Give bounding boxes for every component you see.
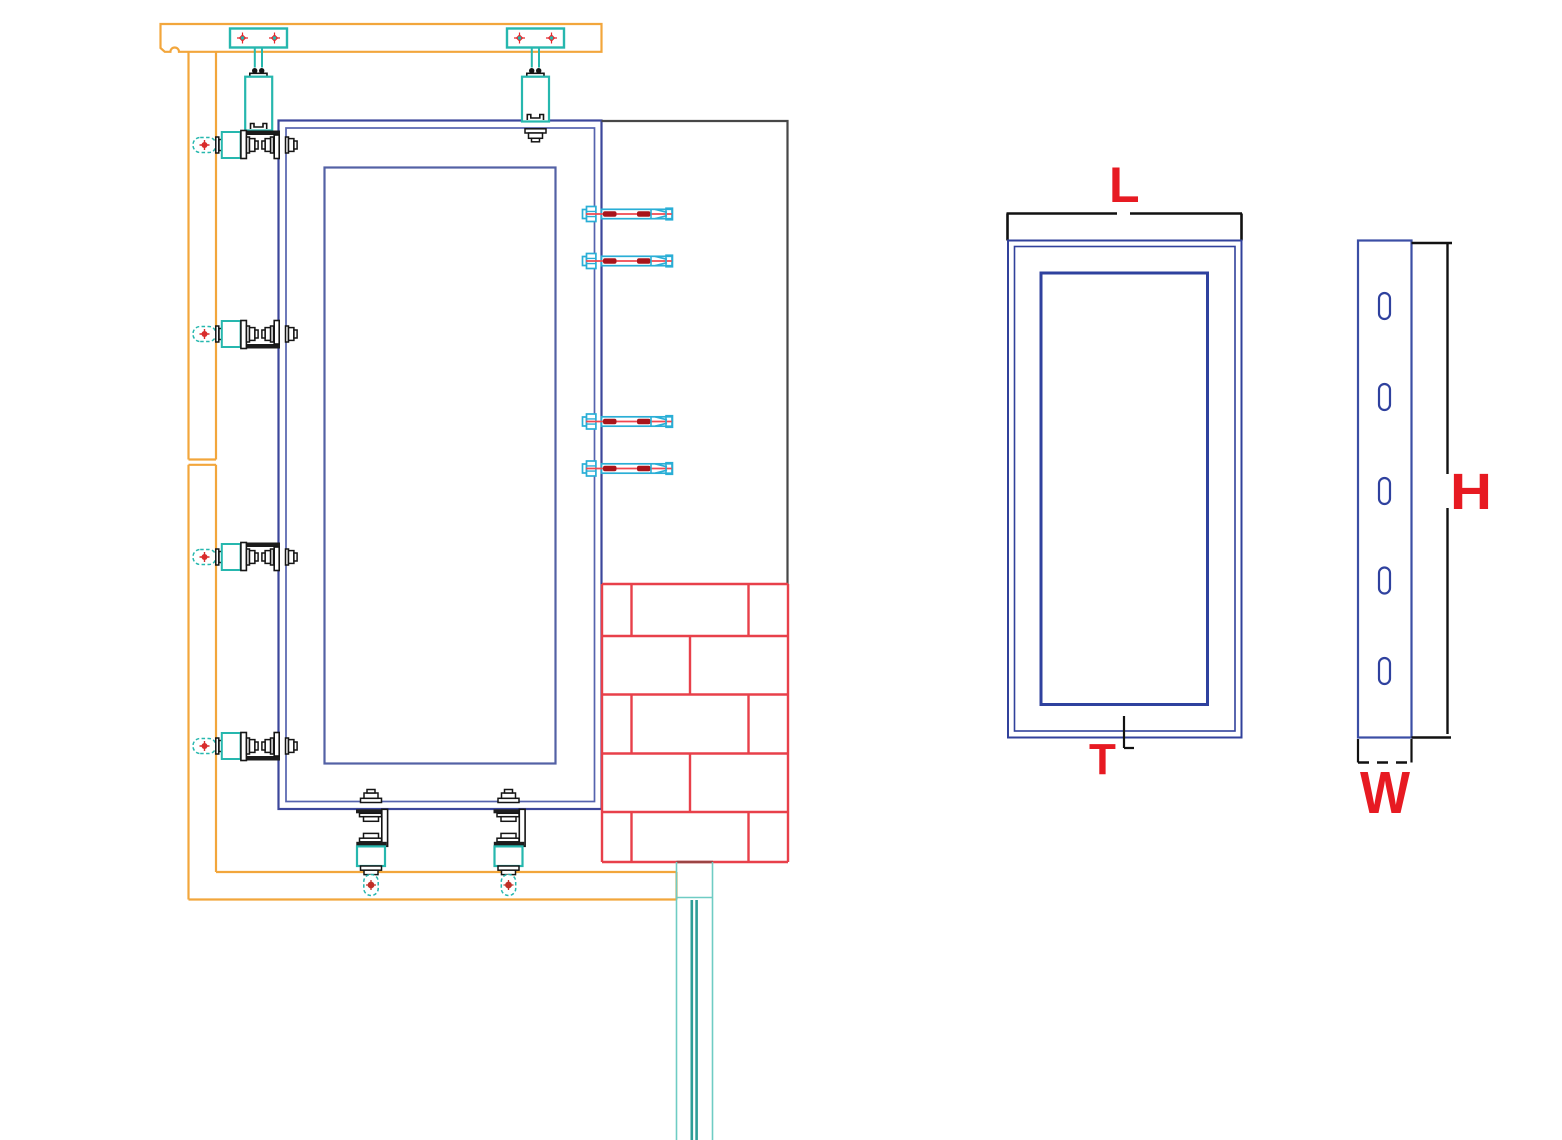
profile slot 1 [1379,293,1390,319]
anchor bolt 2 [583,254,674,269]
hanger rod 1 [255,48,262,68]
anchor bolt 1 [583,207,674,222]
hanger clamp 1 [251,124,267,130]
drain pipe inner [692,900,697,1140]
bottom bracket 1 [356,790,388,896]
bottom bracket 2 [494,790,526,896]
profile slot 3 [1379,478,1390,504]
dimension W lines [1358,739,1412,763]
top rail [161,24,602,52]
glass panel [325,168,556,764]
panel outer frame [279,121,602,810]
bottom rail [189,872,677,900]
profile slot 4 [1379,568,1390,594]
anchor bolt 3 [583,414,674,429]
svg-text:W: W [1360,760,1410,826]
svg-text:T: T [1089,735,1116,784]
left mullion upper section [189,52,217,460]
wall line [602,121,788,584]
svg-text:H: H [1450,463,1492,520]
fixing plate 1 [230,29,287,48]
front view glass [1041,273,1208,705]
dimension T mark [1124,716,1134,748]
hanger clamp 2 [527,115,543,121]
svg-text:L: L [1109,157,1140,213]
hanger stud 2 [525,129,546,133]
dimension L line [1007,214,1243,241]
drain pipe outer [677,862,713,1140]
side bracket 4 [193,733,297,761]
brick wall [602,584,788,862]
hanger channel 2 [522,77,549,122]
front view inner frame [1015,247,1236,732]
hanger rod 2 [532,48,539,68]
profile slot 2 [1379,384,1390,410]
side bracket 1 [193,131,297,159]
front view outer frame [1008,241,1242,738]
hanger bolt 1 [252,68,257,73]
left mullion lower section [189,465,217,900]
anchor bolt 4 [583,461,674,476]
hanger bolt 2 [529,68,534,73]
fixing plate 2 [507,29,564,48]
dimension H line [1412,243,1453,738]
side bracket 2 [193,321,297,349]
panel inner frame [286,128,595,802]
hanger channel 1 [245,77,272,131]
profile bar [1358,241,1412,738]
brick sill dark edge [677,861,714,863]
side bracket 3 [193,543,297,571]
profile slot 5 [1379,658,1390,684]
